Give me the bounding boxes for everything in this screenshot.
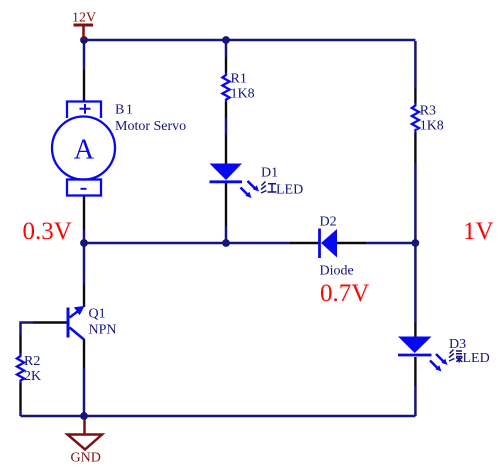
svg-text:0.7V: 0.7V [320, 280, 369, 307]
svg-text:A: A [74, 135, 95, 166]
svg-text:GND: GND [71, 451, 101, 466]
svg-text:Diode: Diode [320, 264, 354, 279]
svg-text:D2: D2 [320, 215, 337, 230]
svg-text:1V: 1V [463, 218, 494, 245]
svg-text:NPN: NPN [89, 323, 117, 338]
svg-text:0.3V: 0.3V [23, 218, 72, 245]
svg-text:2K: 2K [24, 369, 41, 384]
svg-text:R1: R1 [231, 72, 247, 87]
svg-text:1K8: 1K8 [420, 119, 444, 134]
svg-text:R2: R2 [24, 354, 40, 369]
svg-text:LED: LED [276, 183, 303, 198]
svg-text:Q1: Q1 [89, 307, 106, 322]
svg-text:B1: B1 [115, 103, 134, 118]
svg-text:LED: LED [463, 351, 490, 366]
svg-text:1K8: 1K8 [231, 87, 255, 102]
svg-text:12V: 12V [72, 11, 96, 26]
svg-text:R3: R3 [420, 104, 436, 119]
svg-text:D3: D3 [449, 337, 466, 352]
svg-text:Motor Servo: Motor Servo [115, 119, 186, 134]
svg-text:D1: D1 [261, 166, 278, 181]
